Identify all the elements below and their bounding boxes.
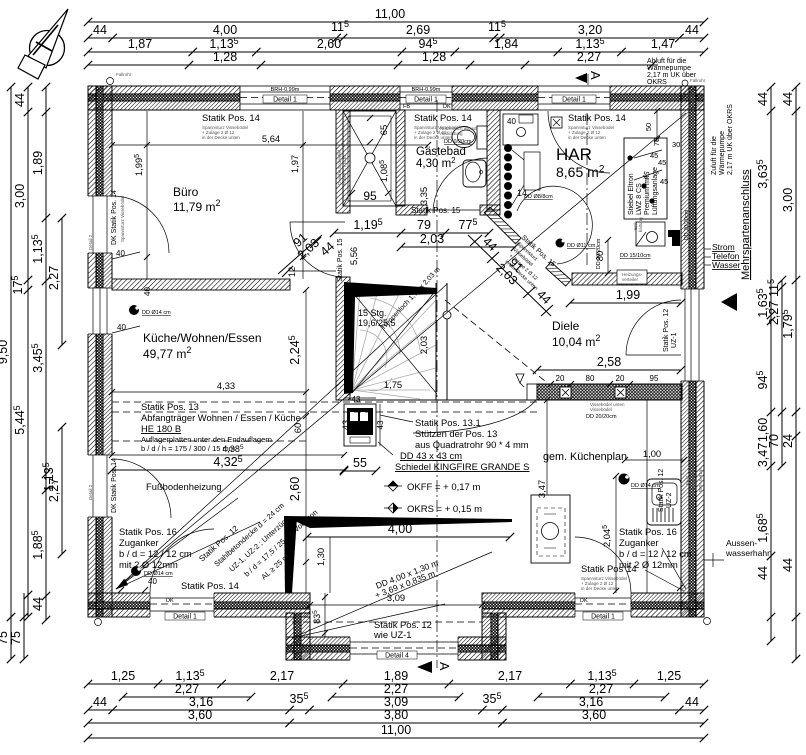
svg-text:43: 43: [352, 395, 361, 404]
interior wall Gaestebad south left: [396, 205, 427, 215]
svg-text:DD 43 x 43 cm: DD 43 x 43 cm: [400, 450, 462, 461]
svg-text:50: 50: [644, 123, 653, 131]
Fallrohr circles: [107, 78, 114, 85]
svg-text:1,25: 1,25: [657, 669, 681, 683]
svg-text:Statik Pos. 13: Statik Pos. 13: [141, 401, 199, 412]
svg-text:Fallrohr: Fallrohr: [116, 72, 132, 77]
right dimension chain outer (44/3,00/1,79.5/24/44): [780, 83, 800, 663]
window opening top B: [400, 85, 452, 111]
svg-text:Abfangträger Wohnen / Essen /: Abfangträger Wohnen / Essen / Küche: [141, 412, 301, 423]
stair right edge lines: [435, 283, 437, 400]
HAR washer unit: [503, 114, 538, 145]
statik pos 14 bottom-left: [181, 580, 239, 591]
svg-text:2,27: 2,27: [767, 301, 781, 325]
svg-text:3,16: 3,16: [579, 695, 603, 709]
dim 5,64 Buero top: [109, 133, 431, 148]
Heizungsverteiler box: [617, 270, 647, 284]
svg-text:Diele: Diele: [552, 319, 580, 333]
svg-text:79: 79: [417, 218, 431, 232]
svg-text:Detail 2: Detail 2: [88, 234, 93, 250]
svg-text:2,03: 2,03: [418, 336, 429, 354]
text Abluft fuer die Waermepumpe (top right): [647, 58, 697, 86]
svg-text:Statik Pos. 15: Statik Pos. 15: [411, 206, 461, 215]
dim 4,38.5 / 4,32.5: [108, 420, 351, 474]
window opening top C: [538, 85, 610, 111]
svg-text:1,00: 1,00: [643, 448, 661, 459]
interior wall HAR south: [572, 273, 682, 285]
svg-text:OKRS = + 0,15 m: OKRS = + 0,15 m: [407, 504, 482, 515]
interior wall shower west: [336, 110, 350, 213]
svg-text:Detail 3: Detail 3: [692, 474, 697, 490]
svg-text:3,20: 3,20: [578, 23, 602, 37]
svg-text:Büro: Büro: [173, 185, 199, 199]
svg-text:44: 44: [685, 23, 699, 37]
svg-text:Statik Pos. 15: Statik Pos. 15: [337, 238, 344, 281]
HAR small unit below: [633, 217, 665, 246]
window opening top A: [240, 85, 330, 111]
svg-text:4,00: 4,00: [388, 522, 412, 536]
stair bottom line: [336, 399, 537, 401]
dim 2,04.5 kitchen: [601, 473, 619, 594]
svg-text:95: 95: [363, 189, 377, 203]
text Zuluft fuer die Waermepumpe (rotated, right): [711, 104, 734, 175]
dim line under Gaestebad (1,19.5/79/77.5): [330, 217, 519, 251]
left dimension chain 4th (2,27 / 1,13.5 / 2,27): [41, 214, 66, 558]
svg-text:1,84: 1,84: [494, 37, 518, 51]
svg-text:LWZ 8 CS: LWZ 8 CS: [636, 183, 643, 215]
sink unit right: [647, 479, 681, 525]
svg-text:1,97: 1,97: [289, 155, 300, 173]
svg-text:4,00: 4,00: [213, 23, 237, 37]
svg-text:Detail 1: Detail 1: [591, 614, 615, 621]
dim 75 ticks bottom-left outside: [7, 613, 15, 621]
Gaestebad washbasin: [463, 160, 486, 187]
svg-text:b / d / h = 175 / 300 / 15 mm: b / d / h = 175 / 300 / 15 mm: [141, 444, 235, 453]
svg-text:2,03: 2,03: [420, 232, 444, 246]
top dimension chain row 1 (11,00): [84, 7, 708, 26]
window opening bay bottom: [350, 636, 458, 661]
svg-text:Statik Pos. 16: Statik Pos. 16: [619, 526, 677, 537]
bay left wall: [286, 613, 310, 660]
rotated text block Statik Pos 12 (bottom left): [197, 501, 319, 582]
svg-text:Abluft für die: Abluft für die: [647, 58, 686, 65]
bay bottom wall: [286, 637, 506, 660]
room label Kueche/Wohnen/Essen: [143, 331, 262, 361]
rotated text Statik Pos 12 UZ-2: [658, 469, 673, 512]
svg-text:44: 44: [93, 23, 107, 37]
stair hole diagonal: [353, 289, 437, 392]
kitchen counter edge lines: [615, 476, 617, 593]
room label Diele: [552, 319, 600, 349]
diagonal dim chain upper (divider end) 91/2,03/12: [278, 230, 359, 281]
svg-text:43: 43: [340, 420, 351, 430]
svg-text:3,60: 3,60: [582, 708, 606, 722]
chimney Schiedel Kingfire: [344, 395, 385, 446]
svg-text:4,30 m2: 4,30 m2: [416, 156, 456, 170]
HAR X-box: [551, 117, 562, 128]
dim 1,99 (Diele top): [566, 288, 685, 307]
svg-text:Wasser: Wasser: [712, 260, 741, 270]
svg-text:DD Ø11 cm: DD Ø11 cm: [567, 243, 596, 249]
svg-text:3,09: 3,09: [384, 695, 408, 709]
svg-text:1,99: 1,99: [616, 288, 640, 302]
dim 83.5 bay: [312, 593, 328, 637]
svg-text:60: 60: [292, 423, 303, 433]
svg-text:BRH-0.91m: BRH-0.91m: [698, 468, 703, 492]
svg-text:2,17: 2,17: [498, 669, 522, 683]
HAR small dims 50/75/30/45: [627, 108, 680, 204]
svg-text:2,58: 2,58: [597, 355, 621, 369]
svg-text:43: 43: [376, 420, 385, 429]
svg-text:Zuganker: Zuganker: [619, 537, 659, 548]
svg-text:75: 75: [9, 631, 23, 645]
svg-text:1,87: 1,87: [128, 37, 152, 51]
svg-text:2,60: 2,60: [288, 477, 302, 501]
svg-text:44: 44: [781, 92, 795, 106]
window opening left wall kitchen: [87, 288, 113, 334]
left dimension chain outermost (9,50 / 75): [0, 83, 15, 663]
Gaestebad small labels: [411, 126, 478, 215]
section marker A bottom: [417, 661, 451, 673]
svg-text:DD 20/20cm: DD 20/20cm: [684, 209, 690, 240]
svg-text:DD Ø14 cm: DD Ø14 cm: [631, 483, 660, 489]
svg-text:3,80: 3,80: [384, 708, 408, 722]
svg-text:Zuluft für die: Zuluft für die: [711, 136, 718, 175]
interior wall shower/Gaestebad: [396, 110, 405, 206]
svg-text:1,89: 1,89: [384, 669, 408, 683]
interior wall Gaestebad south right: [480, 205, 500, 215]
svg-text:DD 0/20cm: DD 0/20cm: [444, 139, 472, 145]
text Aussenwasserhahn: [704, 538, 772, 567]
bay diagonal with label DD 4,00x1,30: [292, 552, 492, 638]
bay dashed line: [292, 621, 482, 623]
svg-text:Detail 4: Detail 4: [385, 653, 409, 660]
svg-text:2,69: 2,69: [406, 23, 430, 37]
svg-text:Schiedel KINGFIRE GRANDE S: Schiedel KINGFIRE GRANDE S: [395, 461, 529, 472]
svg-text:20: 20: [616, 374, 625, 383]
window opening bottom left run: [150, 592, 214, 621]
svg-text:1,75: 1,75: [384, 379, 402, 390]
svg-text:aus Quadratrohr 90 * 4 mm: aus Quadratrohr 90 * 4 mm: [415, 439, 529, 450]
svg-text:20: 20: [556, 374, 565, 383]
svg-text:44: 44: [31, 597, 45, 611]
svg-text:A: A: [588, 71, 603, 80]
long diagonal D1: [116, 113, 686, 589]
svg-text:44: 44: [756, 566, 770, 580]
door arc Kueche to hall: [290, 222, 345, 277]
svg-text:HE 180 B: HE 180 B: [141, 423, 181, 434]
interior wall Gaestebad/HAR: [487, 110, 500, 210]
diagonal dim chain 44/91-2,03/44: [468, 234, 554, 316]
svg-text:in der Decke unten: in der Decke unten: [581, 586, 619, 591]
svg-text:DK: DK: [443, 104, 451, 110]
svg-text:Auflagerplatten unter den Enda: Auflagerplatten unter den Endauflagern: [141, 435, 272, 444]
svg-text:1,47: 1,47: [651, 37, 675, 51]
svg-text:1,30: 1,30: [315, 548, 326, 566]
north arrow: [18, 9, 68, 79]
top dimension chain row 2 (44/4,00/11,5/2,69/11,5/3,20/44): [84, 19, 708, 42]
labels Fest / Detail 3 right wall: [685, 468, 703, 492]
svg-text:44: 44: [93, 695, 107, 709]
svg-text:DD Ø14 cm: DD Ø14 cm: [142, 310, 171, 316]
svg-text:70: 70: [767, 434, 781, 448]
svg-text:Zuganker: Zuganker: [119, 537, 159, 548]
svg-text:mit 2 Ø 12mm: mit 2 Ø 12mm: [119, 559, 178, 570]
dim 3,09 bay: [307, 592, 485, 608]
svg-text:Detail 1: Detail 1: [273, 97, 297, 104]
text Statik Pos 16 Zuganker (bottom left): [119, 526, 192, 570]
dim 55 near chimney: [340, 456, 380, 475]
exterior wall bottom left run: [88, 593, 310, 617]
svg-text:44: 44: [756, 92, 770, 106]
interior wall divider Buero/Kueche: [112, 279, 290, 290]
text Statik Pos 12 wie UZ-1 (bay): [373, 619, 432, 640]
section marker A top: [575, 71, 603, 86]
svg-text:kaltung: kaltung: [638, 217, 643, 232]
svg-text:80: 80: [586, 374, 595, 383]
svg-text:44: 44: [685, 695, 699, 709]
svg-text:55: 55: [353, 456, 367, 470]
svg-text:9,50: 9,50: [0, 340, 10, 364]
interior diagonal wall upper segment: [484, 207, 521, 244]
svg-text:Vissebödel: Vissebödel: [590, 407, 612, 412]
svg-text:FB: FB: [403, 104, 410, 110]
rotated text Statik Pos 15 along diagonal wall: [504, 234, 557, 291]
svg-text:45: 45: [660, 177, 668, 186]
svg-text:Statik Pos. 14: Statik Pos. 14: [568, 112, 626, 123]
svg-text:Statik Pos. 14: Statik Pos. 14: [181, 580, 239, 591]
svg-text:Statik Pos. 12: Statik Pos. 12: [658, 469, 665, 512]
svg-text:BRH-0.99m: BRH-0.99m: [412, 87, 441, 93]
door opening left wall terrace: [87, 234, 171, 518]
vertical dim 2,24.5 / 2,60: [287, 287, 309, 593]
top dimension chain row 4 (1,28/1,28/2,27): [84, 50, 658, 69]
svg-text:40: 40: [148, 577, 157, 586]
long diagonal D2: [116, 284, 447, 589]
svg-text:45: 45: [658, 158, 666, 167]
exterior wall top: [88, 86, 704, 110]
svg-text:1,89: 1,89: [31, 151, 45, 175]
black L wedge stair: [344, 282, 437, 394]
left dimension chain 3rd (1,89/1,13.5/3,45.5/1,88.5/44): [30, 83, 50, 624]
svg-text:Küche/Wohnen/Essen: Küche/Wohnen/Essen: [143, 331, 262, 345]
svg-text:40: 40: [507, 117, 516, 126]
left dimension chain 2nd-b (75): [9, 593, 28, 663]
text DD 43x43 Schiedel: [378, 442, 529, 472]
svg-text:4,33: 4,33: [217, 380, 235, 391]
svg-text:0,95 x 1,735 m: 0,95 x 1,735 m: [342, 155, 347, 185]
svg-text:10,04 m2: 10,04 m2: [552, 333, 600, 349]
svg-text:Fallrohr: Fallrohr: [690, 78, 706, 83]
marker triangle right: [721, 293, 737, 311]
left dimension chain 2nd (44/3,00/17.5/5,44.5): [10, 83, 32, 621]
svg-text:12: 12: [286, 267, 297, 277]
rotated text Statik Pos 12 UZ-1 (right wall): [663, 309, 678, 352]
bottom dimension chain row 2 (2,27 x3): [119, 682, 669, 701]
svg-text:40: 40: [143, 287, 152, 296]
room label Gaestebad: [416, 146, 466, 170]
statik pos 14 HAR: [568, 112, 626, 140]
svg-text:3,60: 3,60: [188, 708, 212, 722]
svg-text:2,27: 2,27: [175, 682, 199, 696]
hall north edge line: [290, 270, 336, 272]
svg-text:Stiebel Eltron: Stiebel Eltron: [628, 173, 635, 215]
svg-text:Statik Pos. 12: Statik Pos. 12: [663, 309, 670, 352]
door arc bottom-left window: [150, 529, 214, 593]
svg-text:verteiler: verteiler: [622, 277, 639, 282]
svg-text:2,27: 2,27: [577, 50, 601, 64]
svg-text:24: 24: [781, 434, 795, 448]
Gaestebad toilet: [452, 126, 487, 149]
svg-text:11,79 m2: 11,79 m2: [173, 198, 220, 214]
text Statik Pos 16 Zuganker (bottom right): [619, 526, 692, 591]
svg-text:1,28: 1,28: [422, 50, 446, 64]
exterior wall right: [681, 86, 704, 617]
svg-text:30: 30: [672, 140, 680, 149]
svg-text:Fußbodenheizung: Fußbodenheizung: [146, 481, 222, 492]
svg-text:5,64: 5,64: [262, 133, 280, 144]
svg-text:44: 44: [781, 558, 795, 572]
HAR black corner piece: [668, 230, 680, 246]
svg-text:3,35: 3,35: [418, 187, 429, 205]
HAR radiator dots: [504, 144, 553, 219]
svg-text:3,16: 3,16: [189, 695, 213, 709]
svg-text:UZ-1: UZ-1: [671, 332, 678, 348]
svg-text:Statik Pos. 14: Statik Pos. 14: [202, 112, 260, 123]
svg-text:49,77 m2: 49,77 m2: [143, 345, 191, 361]
svg-text:Statik Pos. 13.1: Statik Pos. 13.1: [415, 417, 481, 428]
Statik Pos 13 block with dashed lines: [112, 401, 537, 453]
dim 1,99.5 vertical Buero: [133, 111, 150, 279]
text Statik Pos 13.1 Stuetzen: [380, 400, 536, 450]
svg-text:wasserhahn: wasserhahn: [725, 548, 772, 558]
svg-text:Fest: Fest: [685, 475, 690, 485]
door arc diagonal wall to Diele: [517, 186, 592, 264]
svg-text:3,47: 3,47: [536, 480, 547, 498]
door arc bottom-right window: [575, 537, 631, 593]
svg-text:A: A: [437, 662, 451, 671]
stair assembly: [336, 266, 537, 400]
drain dot kitchen: [619, 474, 661, 490]
svg-text:Lüftungsanlage: Lüftungsanlage: [652, 167, 659, 215]
leader lines bottom-left corner: [116, 498, 260, 589]
dim 1,00 kitchen: [622, 448, 687, 463]
window opening bottom right run: [575, 592, 631, 621]
exterior wall left: [88, 86, 112, 617]
svg-text:b / d = 12 / 12 cm: b / d = 12 / 12 cm: [119, 548, 192, 559]
svg-text:OKRS: OKRS: [647, 79, 667, 86]
dim 1,97 vertical Buero: [289, 111, 306, 279]
svg-text:5,56: 5,56: [348, 247, 359, 265]
svg-text:2,27: 2,27: [589, 682, 613, 696]
dim 4,00 bay: [303, 522, 514, 541]
HAR heat pump: [624, 138, 667, 219]
svg-text:2,27: 2,27: [47, 266, 61, 290]
svg-text:DD 20/20cm: DD 20/20cm: [596, 238, 602, 269]
bottom dimension chain row 3 (44/3,16/35.5/3,09/35.5/3,16/44): [84, 691, 708, 714]
svg-text:2,17 m UK über OKRS: 2,17 m UK über OKRS: [727, 104, 734, 175]
svg-text:2,17: 2,17: [270, 669, 294, 683]
svg-text:Detail 2: Detail 2: [690, 262, 695, 278]
svg-text:DD 20/20cm: DD 20/20cm: [586, 414, 617, 420]
top dimension chain row 3 (1,87/1,13.5/2,60/94.5/1,84/1,13.5/1,47): [84, 36, 708, 56]
room label HAR: [556, 145, 605, 180]
Buero door arc: [112, 196, 169, 253]
svg-text:BRH-0.99m: BRH-0.99m: [271, 87, 300, 93]
svg-text:gem. Küchenplan: gem. Küchenplan: [543, 451, 627, 463]
kitchen island: [531, 480, 570, 563]
svg-text:3,00: 3,00: [13, 184, 27, 208]
bottom dimension chain row 1 (1,25/1,13.5/2,17/1,89/2,17/1,13.5/1,25): [84, 668, 708, 688]
room label Buero: [173, 185, 220, 214]
svg-text:Wärmepumpe: Wärmepumpe: [647, 65, 691, 72]
svg-text:75: 75: [652, 138, 661, 146]
bay right wall: [482, 613, 506, 660]
svg-text:Stützen der Pos. 13: Stützen der Pos. 13: [415, 428, 497, 439]
svg-text:DD Ø14 cm: DD Ø14 cm: [144, 571, 173, 577]
small 40 labels + drain bottom left: [118, 566, 173, 593]
svg-text:in der Decke unten: in der Decke unten: [202, 135, 240, 140]
statik pos 14 top-left: [202, 112, 260, 140]
statik pos 14 top-middle: [414, 112, 472, 140]
svg-text:2,60: 2,60: [317, 37, 341, 51]
OKFF / OKRS markers: [384, 481, 482, 515]
dashed diagonal to kitchen band: [445, 300, 545, 381]
exterior wall bottom right run: [482, 593, 704, 617]
statik pos 14 bottom-right: [581, 563, 637, 591]
svg-text:DD 15/10cm: DD 15/10cm: [620, 253, 651, 259]
svg-text:DK: DK: [580, 598, 588, 604]
black L wedge bay window element: [284, 516, 512, 593]
svg-text:3,00: 3,00: [781, 188, 795, 212]
Gaestebad door arc: [433, 158, 488, 213]
interior diagonal wall lower segment: [546, 262, 571, 286]
svg-text:Statik Pos. 14: Statik Pos. 14: [414, 112, 472, 123]
dim 2,58 (Diele): [533, 355, 685, 374]
text Mehrspartenanschluss (rotated, right): [740, 169, 752, 280]
svg-text:Mehrspartenanschluss: Mehrspartenanschluss: [740, 169, 752, 280]
svg-text:Gästebad: Gästebad: [416, 146, 466, 158]
svg-text:Abdichtung: Abdichtung: [440, 131, 463, 136]
svg-text:Wärmepumpe: Wärmepumpe: [719, 131, 726, 175]
svg-text:14: 14: [517, 188, 527, 198]
svg-text:95: 95: [650, 374, 659, 383]
right dimension chain middle (11.5/2,27/70): [766, 276, 786, 470]
svg-text:Detail 1: Detail 1: [173, 614, 197, 621]
HAR labels near wall: [556, 209, 691, 269]
svg-text:1,25: 1,25: [111, 669, 135, 683]
text Strom/Telefon/Wasser: [704, 242, 741, 270]
svg-text:1,28: 1,28: [213, 50, 237, 64]
bottom dimension chain row 5 (11,00): [84, 723, 708, 742]
svg-text:11,00: 11,00: [375, 7, 405, 21]
svg-text:UZ-2: UZ-2: [666, 492, 673, 508]
svg-text:Detail 1: Detail 1: [414, 97, 438, 104]
svg-text:DK Statik Pos. 14: DK Statik Pos. 14: [111, 458, 118, 513]
shower Dusche: [337, 111, 396, 206]
HAR door arc from top window: [548, 111, 610, 173]
svg-text:2,27: 2,27: [384, 682, 408, 696]
dim 1,30 bay: [315, 537, 330, 593]
svg-text:Statik Pos. 16: Statik Pos. 16: [119, 526, 177, 537]
svg-text:Spannsturz Vissebödel: Spannsturz Vissebödel: [120, 196, 125, 242]
svg-text:11,00: 11,00: [381, 723, 411, 737]
right dimension chain inner (44/3,63.5/1,63.5/94.5/1,60/1,68.5/44): [755, 83, 775, 645]
bottom dimension chain row 4 (3,60/3,80/3,60): [84, 708, 708, 727]
svg-text:DK Statik Pos. 14: DK Statik Pos. 14: [111, 190, 118, 245]
door opening left wall Buero: [87, 190, 125, 253]
entrance opening right wall: [680, 262, 706, 381]
